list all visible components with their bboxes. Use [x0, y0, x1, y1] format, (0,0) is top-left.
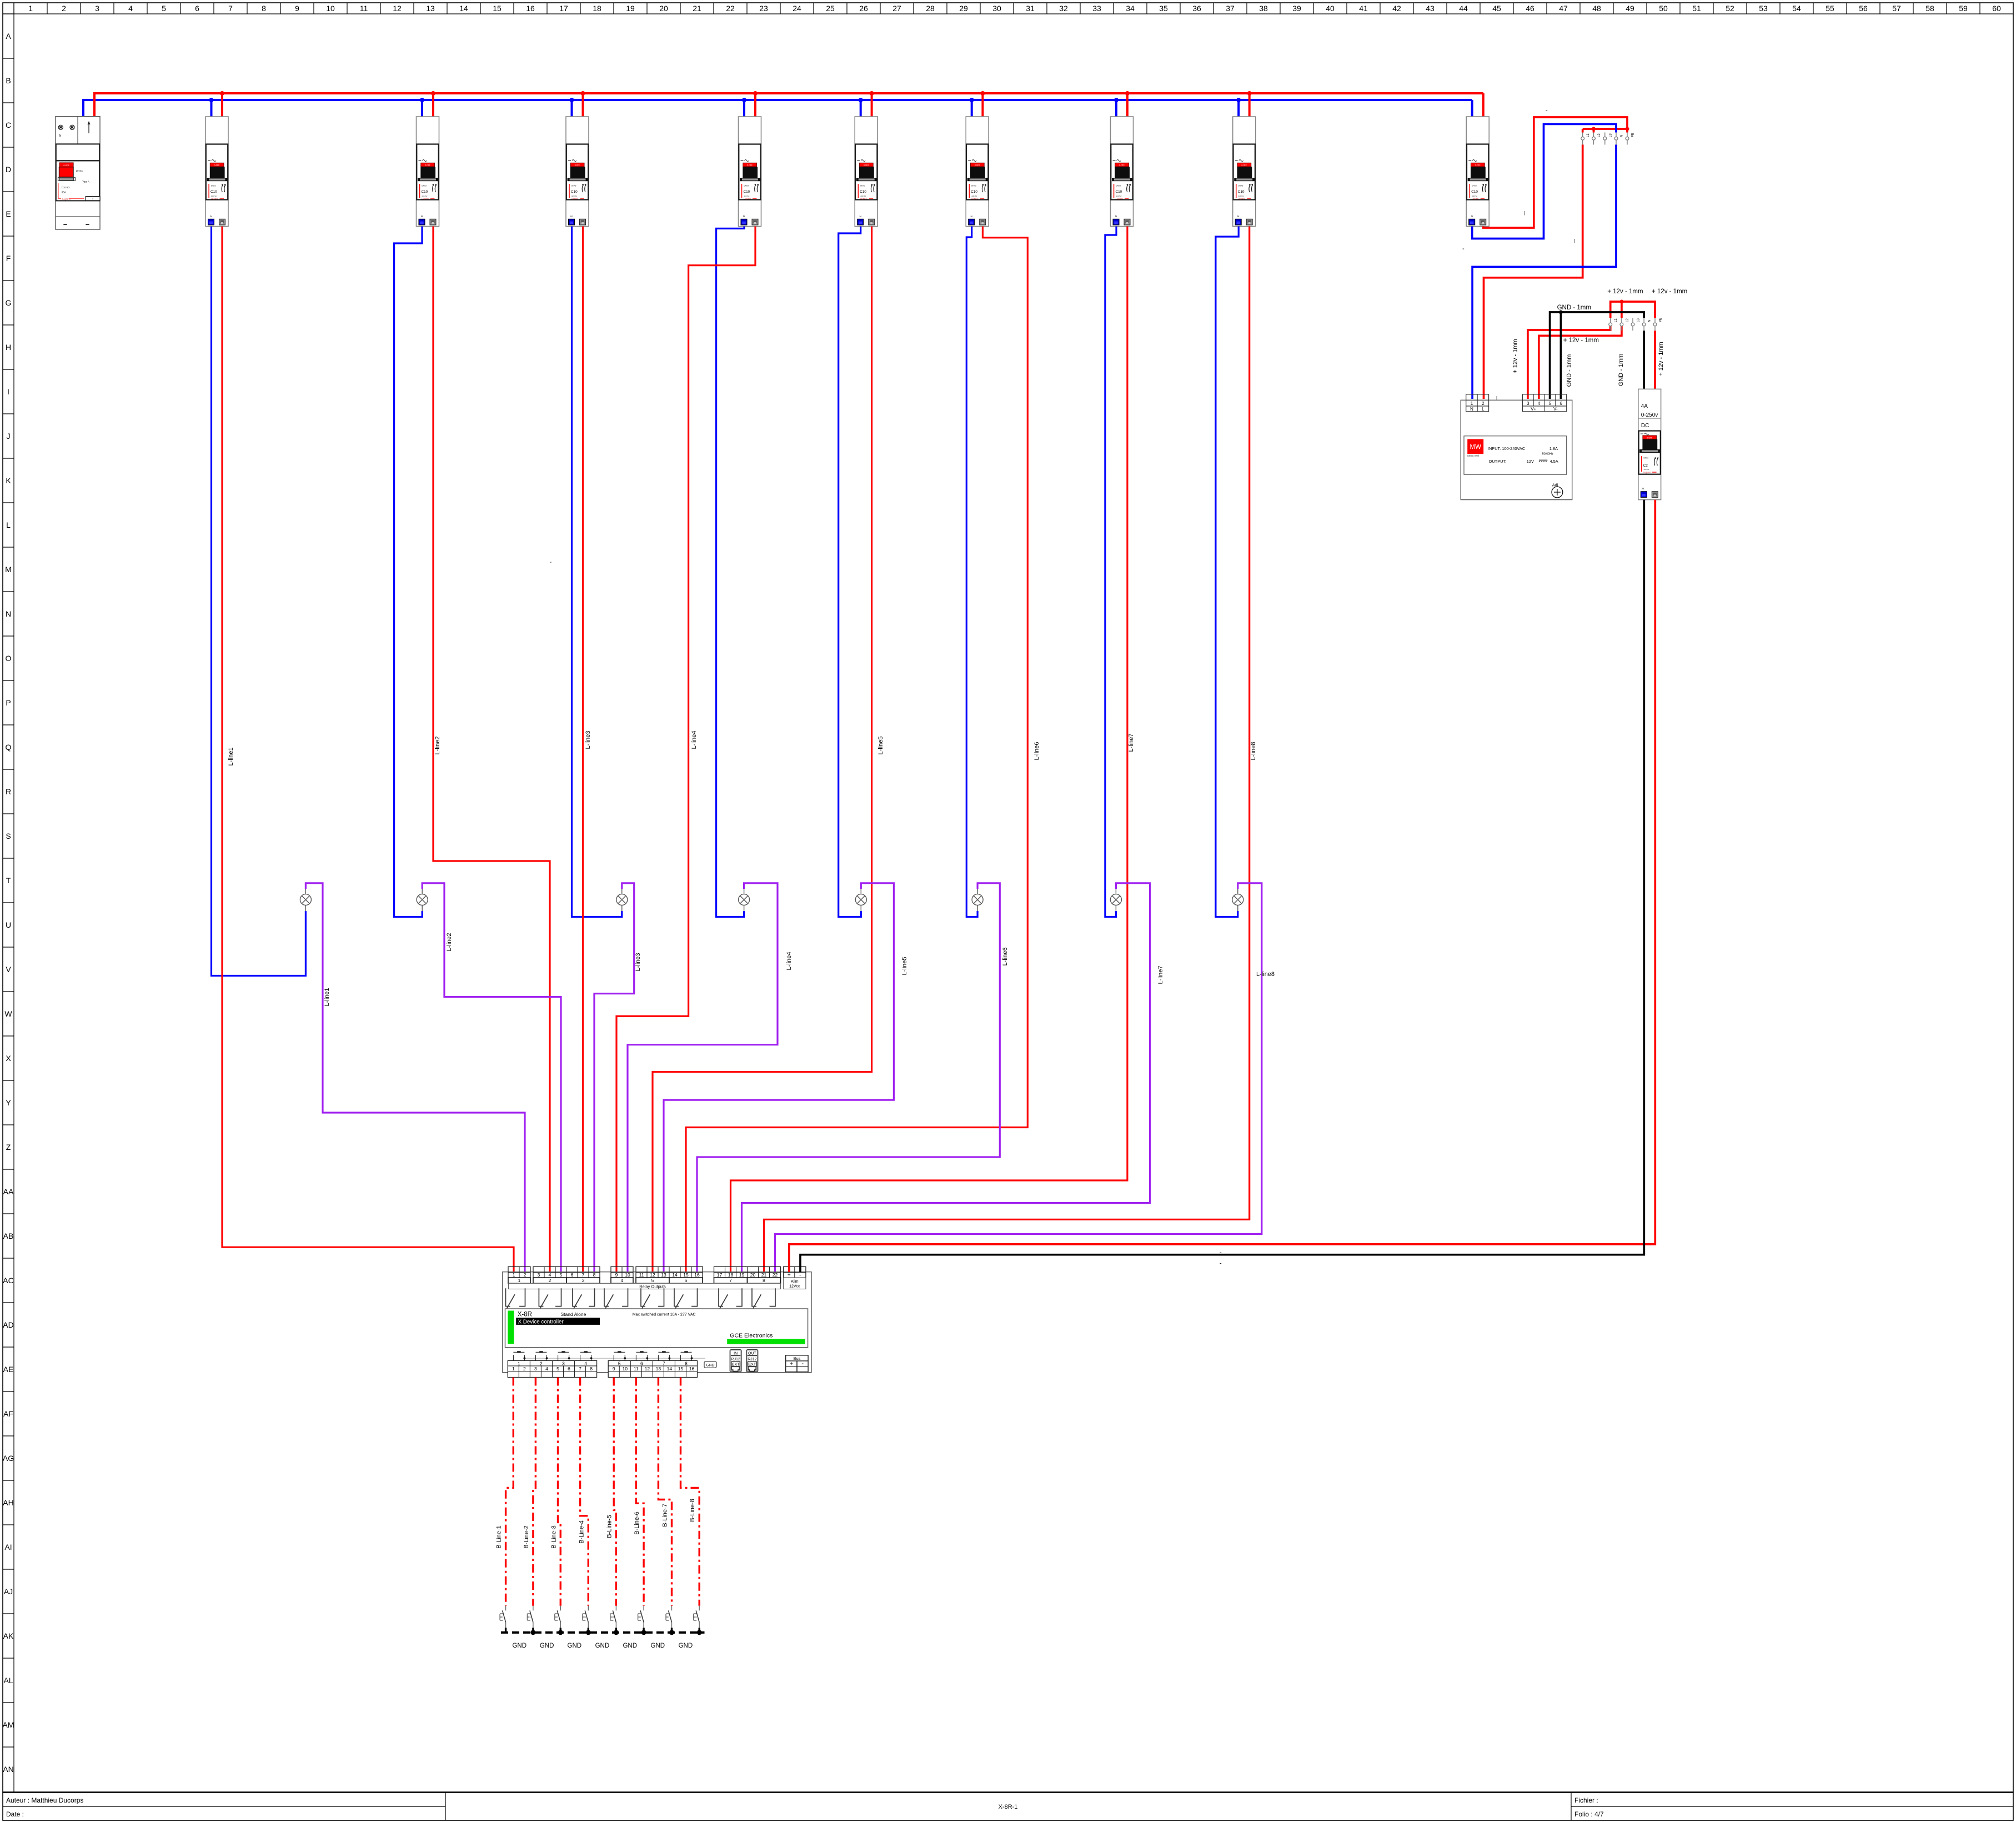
svg-text:AL: AL	[3, 1676, 13, 1685]
svg-text:T: T	[92, 197, 94, 200]
svg-text:406762: 406762	[1644, 468, 1649, 470]
svg-text:54: 54	[1792, 4, 1801, 13]
svg-text:L1: L1	[1614, 318, 1618, 323]
push button BP6	[636, 1352, 647, 1360]
svg-text:-: -	[1462, 246, 1465, 252]
svg-text:GCE Electronics: GCE Electronics	[730, 1333, 773, 1339]
svg-text:39: 39	[1292, 4, 1301, 13]
lamp E8 (L-line8 luminaire)	[1232, 889, 1243, 911]
wire: red phase bus	[94, 92, 1483, 94]
svg-text:Relay Outputs: Relay Outputs	[639, 1284, 666, 1289]
wire: L-line5 neutral (blue) breaker to lamp	[839, 227, 861, 917]
svg-text:30 mA.: 30 mA.	[76, 169, 83, 172]
svg-text:11: 11	[360, 4, 368, 13]
svg-text:14: 14	[667, 1366, 673, 1371]
svg-text:Y: Y	[6, 1098, 11, 1107]
svg-text:RJ12: RJ12	[748, 1358, 756, 1362]
svg-text:AA: AA	[3, 1187, 14, 1196]
wire: breaker 2 feed from bus	[421, 100, 423, 117]
svg-text:0-OFF: 0-OFF	[1647, 437, 1652, 439]
svg-text:2: 2	[1482, 401, 1485, 406]
svg-text:E: E	[6, 209, 11, 218]
svg-text:M: M	[5, 565, 12, 574]
X-8R "Relay Outputs" bar	[509, 1283, 781, 1289]
RCD main switch (Legrand DX3 ID 63A 30mA Type A)	[56, 117, 100, 229]
svg-text:4: 4	[549, 1272, 551, 1278]
svg-text:Bus: Bus	[794, 1356, 801, 1361]
circuit breaker Q9 (supply MCB)	[1466, 117, 1489, 227]
GND box	[704, 1362, 716, 1368]
svg-text:B-Line-7: B-Line-7	[662, 1504, 669, 1527]
push button BP2	[536, 1352, 547, 1360]
svg-text:W: W	[4, 1009, 12, 1018]
switch SW3 (push button to GND)	[555, 1606, 561, 1628]
lamp E2 (L-line2 luminaire)	[417, 889, 428, 911]
svg-text:17: 17	[559, 4, 568, 13]
svg-text:42: 42	[1392, 4, 1401, 13]
svg-text:18: 18	[728, 1272, 734, 1278]
svg-text:-: -	[1546, 107, 1548, 114]
svg-text:OUTPUT:: OUTPUT:	[1489, 459, 1507, 464]
svg-text:15: 15	[678, 1366, 684, 1371]
title block	[3, 1793, 2013, 1820]
DC circuit breaker Q10 (4A 0-250v DC C2)	[1638, 389, 1661, 499]
svg-text:K: K	[6, 476, 11, 485]
wire: B9 neutral to connector K1	[1472, 124, 1616, 238]
wire: L-line2 switched live (purple) lamp to relay NO terminal 5	[422, 883, 561, 1272]
wire: L-line1 switched live (purple) lamp to relay NO terminal 2	[305, 883, 525, 1272]
svg-text:L3: L3	[1637, 318, 1641, 323]
wire: breaker 1 feed from bus	[210, 100, 213, 117]
svg-text:8: 8	[590, 1366, 593, 1371]
svg-text:B-Line-3: B-Line-3	[550, 1525, 557, 1549]
svg-text:GND - 1mm: GND - 1mm	[1566, 354, 1572, 387]
wire: K2 N to DC breaker (GND)	[1643, 331, 1645, 389]
svg-text:L-line5: L-line5	[901, 957, 908, 975]
svg-text:16: 16	[689, 1366, 695, 1371]
GND bus (dashed black)	[501, 1631, 705, 1634]
svg-text:B-Line-6: B-Line-6	[634, 1511, 640, 1535]
svg-text:D: D	[6, 165, 11, 174]
svg-text:7: 7	[729, 1278, 732, 1283]
wire: B-Line-3 (dashed) input 5 to switch	[558, 1378, 561, 1606]
svg-text:9: 9	[295, 4, 299, 13]
wire: B-Line-6 (dashed) input 11 to switch	[636, 1378, 644, 1606]
svg-text:16: 16	[694, 1272, 700, 1278]
svg-text:AM: AM	[3, 1720, 14, 1729]
svg-text:+ 12v - 1mm: + 12v - 1mm	[1607, 288, 1643, 295]
svg-text:3: 3	[534, 1366, 537, 1371]
svg-text:AH: AH	[3, 1498, 13, 1507]
svg-text:6: 6	[1559, 401, 1562, 406]
push button BP5	[614, 1352, 625, 1360]
node: bus junction 3	[581, 91, 585, 96]
svg-text:L-line3: L-line3	[585, 730, 591, 749]
wire: L-line5 switched live (purple) lamp to relay NO terminal 13	[664, 883, 894, 1272]
svg-text:N: N	[6, 609, 11, 618]
svg-text:4: 4	[621, 1278, 624, 1283]
svg-text:20: 20	[750, 1272, 756, 1278]
svg-text:INPUT: 100-240VAC: INPUT: 100-240VAC	[1488, 446, 1526, 451]
connector K2 (L1 L2 L3 N PE)	[1609, 318, 1612, 331]
svg-text:2: 2	[549, 1278, 551, 1283]
svg-text:U: U	[6, 920, 11, 929]
svg-text:B-Line-1: B-Line-1	[496, 1525, 503, 1549]
svg-text:5: 5	[560, 1272, 563, 1278]
svg-text:L3: L3	[1608, 133, 1612, 138]
wire: B-Line-8 (dashed) input 15 to switch	[681, 1378, 700, 1606]
svg-text:V-: V-	[1553, 407, 1558, 412]
wire: L-line1 neutral (blue) breaker to lamp	[212, 227, 306, 976]
svg-text:3: 3	[562, 1360, 565, 1366]
svg-text:|: |	[1524, 211, 1525, 216]
svg-text:AC: AC	[3, 1276, 13, 1285]
labels GND	[512, 1643, 693, 1649]
wire: blue neutral bus	[83, 99, 1472, 101]
wire: L-line6 switched live (purple) lamp to relay NO terminal 16	[697, 883, 1000, 1272]
svg-text:9: 9	[615, 1272, 618, 1278]
X-8R backplate	[503, 1272, 811, 1373]
switch SW5 (push button to GND)	[610, 1606, 616, 1628]
node: bus junction 1	[220, 91, 224, 96]
svg-text:EXT: EXT	[732, 1363, 740, 1367]
svg-text:52: 52	[1726, 4, 1734, 13]
wire: L-line4 switched live (purple) lamp to relay NO terminal 10	[628, 883, 778, 1272]
svg-text:26: 26	[859, 4, 868, 13]
svg-text:38: 38	[1259, 4, 1268, 13]
svg-text:Alim: Alim	[791, 1280, 799, 1284]
wire: B9 live to connector K1	[1483, 117, 1627, 228]
svg-text:X-8R: X-8R	[518, 1312, 532, 1318]
relay contact 5	[641, 1288, 664, 1308]
svg-text:N: N	[1470, 407, 1473, 412]
svg-text:7: 7	[663, 1360, 665, 1366]
svg-text:-: -	[801, 1360, 804, 1367]
svg-text:Auteur : Matthieu Ducorps: Auteur : Matthieu Ducorps	[6, 1796, 83, 1804]
wire: PSU V- (5,6) GND bus to K2 N	[1550, 312, 1644, 399]
wire: L-line2 live (red) breaker to relay COM terminal 4	[433, 227, 550, 1273]
svg-text:21: 21	[693, 4, 701, 13]
circuit breaker Q5 (C10 MCB)	[855, 117, 877, 227]
svg-text:2: 2	[523, 1366, 526, 1371]
svg-text:AB: AB	[3, 1232, 14, 1240]
svg-text:14: 14	[672, 1272, 678, 1278]
IN RJ12 connector	[730, 1350, 741, 1372]
wire: breaker 3 feed from bus	[571, 100, 573, 117]
svg-text:Q: Q	[6, 743, 12, 752]
svg-text:AE: AE	[3, 1365, 14, 1374]
svg-text:23: 23	[759, 4, 768, 13]
push button BP4	[580, 1352, 591, 1360]
circuit breaker Q8 (C10 MCB)	[1233, 117, 1256, 227]
svg-text:PE: PE	[1659, 317, 1663, 322]
svg-text:GND: GND	[623, 1643, 637, 1649]
wire: L-line5 live (red) breaker to relay COM terminal 12	[653, 227, 872, 1273]
svg-text:L-line3: L-line3	[635, 953, 641, 971]
svg-text:J: J	[7, 432, 11, 441]
wire: B-Line-1 (dashed) input 1 to switch	[506, 1378, 514, 1606]
svg-text:8: 8	[685, 1360, 688, 1366]
svg-text:I: I	[7, 387, 9, 396]
relay contact 6	[674, 1288, 698, 1308]
svg-text:L-line7: L-line7	[1157, 965, 1164, 984]
relay contact 2	[539, 1288, 561, 1308]
lamp E5 (L-line5 luminaire)	[855, 889, 866, 911]
svg-text:4: 4	[545, 1366, 548, 1371]
svg-text:4.5A: 4.5A	[1550, 459, 1558, 464]
svg-text:20: 20	[659, 4, 668, 13]
wire: B-Line-7 (dashed) input 13 to switch	[658, 1378, 671, 1606]
wire: L-line8 live (red) breaker to relay COM terminal 21	[764, 227, 1250, 1273]
svg-text:N: N	[59, 134, 62, 138]
svg-text:48: 48	[1592, 4, 1601, 13]
svg-text:L-line2: L-line2	[446, 933, 453, 951]
svg-text:35: 35	[1159, 4, 1168, 13]
svg-text:34: 34	[1126, 4, 1135, 13]
svg-text:57: 57	[1892, 4, 1901, 13]
svg-text:5: 5	[1549, 401, 1552, 406]
node: bus junction 8	[1247, 91, 1252, 96]
svg-text:GND: GND	[651, 1643, 665, 1649]
switch SW6 (push button to GND)	[638, 1606, 644, 1628]
svg-text:B-Line-2: B-Line-2	[523, 1525, 530, 1549]
svg-text:|: |	[1574, 238, 1575, 243]
svg-text:X-8R-1: X-8R-1	[999, 1804, 1018, 1810]
svg-text:6: 6	[571, 1272, 574, 1278]
svg-text:L: L	[6, 520, 11, 529]
wire: L-line8 neutral (blue) breaker to lamp	[1216, 227, 1238, 917]
svg-text:60: 60	[1992, 4, 2001, 13]
svg-text:3: 3	[95, 4, 99, 13]
wire: K2 PE to DC breaker (+12v)	[1654, 331, 1656, 389]
svg-text:GND: GND	[540, 1643, 554, 1649]
svg-text:46: 46	[1526, 4, 1534, 13]
svg-text:50: 50	[1659, 4, 1668, 13]
svg-text:+ 12v - 1mm: + 12v - 1mm	[1563, 337, 1599, 344]
wire: GND DC breaker to X-8R Alim -	[800, 500, 1644, 1272]
wire: L-line8 switched live (purple) lamp to relay NO terminal 22	[775, 883, 1262, 1272]
svg-text:B-Line-5: B-Line-5	[606, 1515, 613, 1538]
svg-text:13: 13	[661, 1272, 666, 1278]
X-8R body	[505, 1309, 808, 1348]
svg-text:DX3 ID: DX3 ID	[62, 186, 70, 189]
wire: L-line7 neutral (blue) breaker to lamp	[1105, 227, 1116, 917]
svg-text:7: 7	[228, 4, 233, 13]
svg-text:6: 6	[640, 1360, 643, 1366]
svg-text:GND: GND	[595, 1643, 610, 1649]
svg-text:4A: 4A	[1641, 403, 1648, 409]
svg-text:+ 12v - 1mm: + 12v - 1mm	[1658, 342, 1664, 376]
wire: breaker 6 feed from bus	[971, 100, 973, 117]
svg-text:19: 19	[626, 4, 635, 13]
svg-text:36: 36	[1192, 4, 1201, 13]
svg-text:59: 59	[1959, 4, 1968, 13]
svg-text:L: L	[1482, 407, 1485, 412]
svg-text:Date :: Date :	[6, 1810, 24, 1818]
svg-text:37: 37	[1226, 4, 1235, 13]
wire: L-line6 neutral (blue) breaker to lamp	[966, 227, 977, 917]
svg-text:8: 8	[262, 4, 266, 13]
svg-text:L2: L2	[1625, 318, 1629, 323]
svg-text:63A: 63A	[62, 191, 67, 193]
svg-text:1: 1	[28, 4, 33, 13]
svg-text:Type A: Type A	[82, 181, 89, 183]
circuit breaker Q4 (C10 MCB)	[739, 117, 761, 227]
X-8R green bar	[508, 1311, 514, 1344]
svg-text:2: 2	[62, 4, 66, 13]
svg-text:L-line2: L-line2	[434, 736, 441, 754]
svg-text:Max switched current 10A -: Max switched current 10A - 277 VAC	[633, 1313, 696, 1317]
wire: L-line2 neutral (blue) breaker to lamp	[394, 227, 423, 917]
svg-text:AJ: AJ	[4, 1587, 13, 1596]
relay contact 1	[506, 1288, 525, 1308]
wire: B-Line-5 (dashed) input 9 to switch	[614, 1378, 616, 1606]
svg-text:N: N	[1648, 320, 1652, 323]
node: bus junction 4	[753, 91, 758, 96]
svg-text:50/60Hz: 50/60Hz	[1542, 453, 1553, 456]
svg-text:-: -	[550, 559, 551, 565]
svg-text:12Vcc: 12Vcc	[789, 1285, 800, 1289]
svg-text:56: 56	[1859, 4, 1868, 13]
svg-text:+ 12v - 1mm: + 12v - 1mm	[1512, 339, 1519, 373]
svg-text:11: 11	[634, 1366, 639, 1371]
svg-text:X: X	[6, 1054, 11, 1063]
svg-text:RJ12: RJ12	[731, 1358, 740, 1362]
circuit breaker Q1 (C10 MCB)	[205, 117, 228, 227]
svg-text:44: 44	[1459, 4, 1468, 13]
wire: L-line4 live (red) breaker to relay COM terminal 9	[616, 227, 755, 1273]
svg-text:H: H	[6, 343, 11, 352]
svg-text:3: 3	[538, 1272, 540, 1278]
svg-text:B: B	[6, 76, 11, 85]
svg-text:0-OFF: 0-OFF	[63, 164, 69, 167]
svg-text:-: -	[1220, 1260, 1222, 1267]
svg-text:3: 3	[1527, 401, 1529, 406]
svg-text:AD: AD	[3, 1320, 13, 1329]
svg-text:A: A	[6, 32, 11, 41]
wire: L-line1 live (red) breaker to relay COM terminal 1	[222, 227, 514, 1273]
svg-text:15: 15	[493, 4, 502, 13]
svg-text:16: 16	[526, 4, 535, 13]
svg-text:30: 30	[992, 4, 1001, 13]
svg-text:B-Line-8: B-Line-8	[689, 1499, 696, 1522]
svg-text:19: 19	[739, 1272, 745, 1278]
node: bus junction 2	[431, 91, 435, 96]
lamp E7 (L-line7 luminaire)	[1110, 889, 1121, 911]
svg-text:13: 13	[656, 1366, 661, 1371]
label X Device controller	[516, 1318, 600, 1325]
Bus terminal block	[786, 1355, 808, 1372]
svg-text:GND - 1mm: GND - 1mm	[1618, 354, 1624, 387]
switch SW2 (push button to GND)	[527, 1606, 533, 1628]
svg-text:C: C	[6, 121, 11, 129]
svg-text:32: 32	[1059, 4, 1068, 13]
svg-text:EXT: EXT	[749, 1363, 756, 1367]
svg-text:7: 7	[582, 1272, 585, 1278]
svg-text:Stand Alone: Stand Alone	[561, 1312, 586, 1317]
svg-text:V: V	[6, 965, 11, 974]
svg-text:12V: 12V	[1527, 459, 1534, 464]
svg-text:C2: C2	[1643, 464, 1648, 468]
circuit breaker Q7 (C10 MCB)	[1111, 117, 1134, 227]
svg-text:33: 33	[1092, 4, 1101, 13]
wire: B-Line-4 (dashed) input 7 to switch	[580, 1378, 589, 1606]
svg-text:F: F	[6, 254, 11, 263]
svg-text:47: 47	[1559, 4, 1568, 13]
svg-text:13: 13	[426, 4, 435, 13]
svg-text:0-250v: 0-250v	[1641, 412, 1658, 418]
X-8R relay output terminal blocks	[508, 1267, 781, 1278]
push button BP8	[681, 1352, 692, 1360]
relay contact 7	[719, 1288, 742, 1308]
svg-text:GND - 1mm: GND - 1mm	[1557, 304, 1591, 311]
power supply PSU1 (Mean Well 12V 4.5A)	[1461, 394, 1572, 500]
svg-text:GND: GND	[512, 1643, 526, 1649]
lamp E3 (L-line3 luminaire)	[616, 889, 628, 911]
svg-text:N: N	[1620, 135, 1624, 138]
circuit breaker Q3 (C10 MCB)	[566, 117, 589, 227]
svg-text:2: 2	[540, 1360, 543, 1366]
svg-text:R: R	[6, 787, 11, 796]
svg-text:29: 29	[959, 4, 968, 13]
svg-text:24: 24	[793, 4, 801, 13]
Alim 12Vcc terminal block (+ / -)	[784, 1267, 806, 1278]
push button BP3	[558, 1352, 569, 1360]
wire: K1 L1 to PSU L	[1484, 144, 1583, 399]
circuit breaker Q2 (C10 MCB)	[417, 117, 439, 227]
svg-text:L2: L2	[1597, 133, 1601, 138]
wire: L-line3 switched live (purple) lamp to relay NO terminal 8	[594, 883, 634, 1272]
svg-text:OUT: OUT	[748, 1352, 757, 1355]
svg-text:L-line4: L-line4	[691, 730, 698, 749]
svg-text:DNX3: DNX3	[1644, 457, 1649, 459]
svg-text:L-line1: L-line1	[324, 988, 330, 1006]
wire: L-line4 neutral (blue) breaker to lamp	[716, 227, 744, 917]
lamp E6 (L-line6 luminaire)	[972, 889, 983, 911]
svg-text:43: 43	[1426, 4, 1435, 13]
svg-text:1: 1	[518, 1360, 520, 1366]
svg-text:5: 5	[162, 4, 166, 13]
relay contact 4	[604, 1288, 628, 1308]
svg-text:L-line4: L-line4	[786, 952, 793, 970]
wire: breaker 8 feed from bus	[1237, 100, 1240, 117]
svg-text:GND: GND	[568, 1643, 582, 1649]
wire: 12V+ DC breaker to X-8R Alim +	[789, 500, 1656, 1272]
wire: L-line3 live (red) breaker to relay COM terminal 7	[582, 227, 584, 1273]
svg-text:L-line8: L-line8	[1250, 742, 1257, 760]
switch SW8 (push button to GND)	[694, 1606, 700, 1628]
wire: K1 N to PSU N	[1472, 144, 1616, 399]
svg-text:L-line8: L-line8	[1256, 971, 1275, 978]
X-8R green bar 2	[727, 1339, 805, 1344]
svg-text:GND: GND	[706, 1364, 714, 1368]
node: bus junction 5	[870, 91, 874, 96]
wire: breaker 9 feed from bus	[1471, 100, 1473, 117]
svg-text:12: 12	[645, 1366, 650, 1371]
input GND rail (thin)	[524, 1358, 705, 1359]
svg-text:5: 5	[556, 1366, 559, 1371]
svg-text:T: T	[6, 876, 11, 885]
circuit breaker Q6 (C10 MCB)	[966, 117, 989, 227]
svg-text:AN: AN	[3, 1765, 13, 1774]
svg-text:12: 12	[650, 1272, 655, 1278]
svg-text:Folio : 4/7: Folio : 4/7	[1574, 1810, 1604, 1818]
svg-text:+ 12v - 1mm: + 12v - 1mm	[1652, 288, 1687, 295]
svg-text:21: 21	[761, 1272, 767, 1278]
wire: K1 red distribution	[1583, 128, 1627, 130]
svg-text:1: 1	[518, 1278, 521, 1283]
svg-text:31: 31	[1026, 4, 1035, 13]
